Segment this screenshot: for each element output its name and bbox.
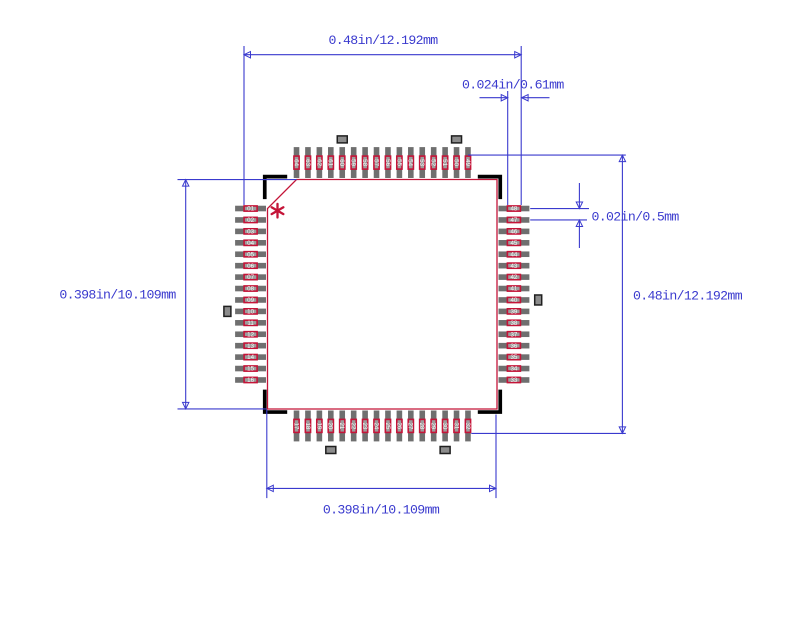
- pad 22 (bottom): [350, 411, 357, 442]
- svg-text:0.48in/12.192mm: 0.48in/12.192mm: [329, 33, 439, 48]
- svg-text:0.398in/10.109mm: 0.398in/10.109mm: [59, 288, 176, 303]
- pad 60 (top): [338, 147, 345, 178]
- svg-text:07: 07: [247, 274, 254, 281]
- pad 17 (bottom): [292, 411, 299, 442]
- svg-text:39: 39: [510, 308, 517, 315]
- marker square pin 10 (left): [224, 306, 231, 316]
- pad 39 (right): [499, 308, 530, 315]
- pad 29 (bottom): [430, 411, 437, 442]
- pad 20 (bottom): [327, 411, 334, 442]
- svg-text:08: 08: [247, 286, 254, 293]
- pad 8 (left): [235, 286, 266, 293]
- svg-text:25: 25: [384, 422, 391, 429]
- svg-text:53: 53: [418, 159, 425, 166]
- svg-text:24: 24: [372, 422, 379, 429]
- svg-text:21: 21: [338, 422, 345, 429]
- pad 6 (left): [235, 263, 266, 270]
- svg-text:13: 13: [247, 343, 254, 350]
- corner bracket bottom-left: [263, 390, 287, 414]
- svg-text:35: 35: [510, 354, 517, 361]
- pad 42 (right): [499, 274, 530, 281]
- pad 46 (right): [499, 228, 530, 235]
- pad 28 (bottom): [418, 411, 425, 442]
- marker square pin 50 (top): [452, 136, 462, 143]
- pad 4 (left): [235, 240, 266, 247]
- pad 57 (top): [372, 147, 379, 178]
- svg-text:28: 28: [418, 422, 425, 429]
- dimension: pad length 0.024in/0.61mm: [462, 77, 564, 205]
- svg-text:26: 26: [395, 422, 402, 429]
- pad 44 (right): [499, 251, 530, 258]
- svg-text:05: 05: [247, 251, 254, 258]
- svg-text:54: 54: [407, 159, 414, 166]
- svg-text:0.02in/0.5mm: 0.02in/0.5mm: [592, 210, 680, 225]
- pad 18 (bottom): [304, 411, 311, 442]
- pad 13 (left): [235, 343, 266, 350]
- svg-text:16: 16: [247, 377, 254, 384]
- svg-text:27: 27: [407, 422, 414, 429]
- pad 47 (right): [499, 217, 530, 224]
- pad 43 (right): [499, 263, 530, 270]
- svg-text:63: 63: [304, 159, 311, 166]
- svg-text:32: 32: [464, 422, 471, 429]
- svg-text:18: 18: [304, 422, 311, 429]
- pad 1 (left): [235, 206, 266, 213]
- marker square pin 20 (bottom): [326, 447, 336, 454]
- pad 55 (top): [395, 147, 402, 178]
- svg-text:49: 49: [464, 159, 471, 166]
- pad 31 (bottom): [452, 411, 459, 442]
- pad 41 (right): [499, 286, 530, 293]
- pad 7 (left): [235, 274, 266, 281]
- svg-text:0.398in/10.109mm: 0.398in/10.109mm: [323, 502, 440, 517]
- pad 45 (right): [499, 240, 530, 247]
- pad 25 (bottom): [384, 411, 391, 442]
- pad 30 (bottom): [441, 411, 448, 442]
- svg-text:59: 59: [350, 159, 357, 166]
- pad 12 (left): [235, 331, 266, 338]
- pad 40 (right): [499, 297, 530, 304]
- svg-text:15: 15: [247, 366, 254, 373]
- svg-text:57: 57: [372, 159, 379, 166]
- svg-text:33: 33: [510, 377, 517, 384]
- svg-text:23: 23: [361, 422, 368, 429]
- svg-text:47: 47: [510, 217, 517, 224]
- svg-text:52: 52: [430, 159, 437, 166]
- dimension: bottom body width 0.398in/10.109mm: [267, 410, 496, 518]
- pad 54 (top): [407, 147, 414, 178]
- pad 38 (right): [499, 320, 530, 327]
- corner bracket bottom-right: [478, 390, 502, 414]
- svg-text:46: 46: [510, 228, 517, 235]
- svg-text:62: 62: [315, 159, 322, 166]
- svg-text:20: 20: [327, 422, 334, 429]
- svg-text:51: 51: [441, 159, 448, 166]
- pad 32 (bottom): [464, 411, 471, 442]
- svg-text:40: 40: [510, 297, 517, 304]
- dimension: right overall height 0.48in/12.192mm: [468, 155, 743, 433]
- pad 35 (right): [499, 354, 530, 361]
- svg-text:64: 64: [292, 159, 299, 166]
- pad 58 (top): [361, 147, 368, 178]
- corner bracket top-right: [478, 175, 502, 199]
- svg-text:56: 56: [384, 159, 391, 166]
- svg-text:12: 12: [247, 331, 254, 338]
- pad 49 (top): [464, 147, 471, 178]
- pad 61 (top): [327, 147, 334, 178]
- svg-text:36: 36: [510, 343, 517, 350]
- svg-text:58: 58: [361, 159, 368, 166]
- pad 36 (right): [499, 343, 530, 350]
- pad 34 (right): [499, 366, 530, 373]
- pad 33 (right): [499, 377, 530, 384]
- svg-text:50: 50: [452, 159, 459, 166]
- pad 50 (top): [452, 147, 459, 178]
- pad 59 (top): [350, 147, 357, 178]
- marker square pin 60 (top): [337, 136, 347, 143]
- svg-text:38: 38: [510, 320, 517, 327]
- pad 52 (top): [430, 147, 437, 178]
- svg-text:43: 43: [510, 263, 517, 270]
- svg-text:11: 11: [247, 320, 254, 327]
- pad 24 (bottom): [372, 411, 379, 442]
- svg-text:34: 34: [510, 366, 517, 373]
- svg-text:0.48in/12.192mm: 0.48in/12.192mm: [633, 289, 743, 304]
- svg-text:41: 41: [510, 286, 517, 293]
- svg-text:55: 55: [395, 159, 402, 166]
- svg-text:03: 03: [247, 228, 254, 235]
- svg-text:06: 06: [247, 263, 254, 270]
- svg-text:10: 10: [247, 308, 254, 315]
- svg-text:01: 01: [247, 206, 254, 213]
- svg-text:45: 45: [510, 240, 517, 247]
- svg-text:19: 19: [315, 422, 322, 429]
- svg-text:31: 31: [452, 422, 459, 429]
- pad 21 (bottom): [338, 411, 345, 442]
- pad 56 (top): [384, 147, 391, 178]
- pad 2 (left): [235, 217, 266, 224]
- pad 15 (left): [235, 366, 266, 373]
- svg-text:30: 30: [441, 422, 448, 429]
- pad 48 (right): [499, 206, 530, 213]
- dimension: pad pitch 0.02in/0.5mm: [530, 183, 679, 248]
- svg-text:44: 44: [510, 251, 517, 258]
- pad 11 (left): [235, 320, 266, 327]
- svg-text:04: 04: [247, 240, 254, 247]
- pad 19 (bottom): [315, 411, 322, 442]
- pad 16 (left): [235, 377, 266, 384]
- svg-text:14: 14: [247, 354, 254, 361]
- svg-text:29: 29: [430, 422, 437, 429]
- pad 14 (left): [235, 354, 266, 361]
- svg-text:42: 42: [510, 274, 517, 281]
- svg-text:60: 60: [338, 159, 345, 166]
- svg-text:37: 37: [510, 331, 517, 338]
- corner bracket top-left: [263, 175, 287, 199]
- pad 27 (bottom): [407, 411, 414, 442]
- svg-text:02: 02: [247, 217, 254, 224]
- IC body outline U1 (chamfered pin-1 corner): [268, 180, 498, 410]
- pad 53 (top): [418, 147, 425, 178]
- pad 51 (top): [441, 147, 448, 178]
- pad 37 (right): [499, 331, 530, 338]
- marker square pin 40 (right): [535, 295, 542, 305]
- pad 63 (top): [304, 147, 311, 178]
- pad 62 (top): [315, 147, 322, 178]
- svg-text:09: 09: [247, 297, 254, 304]
- pad 5 (left): [235, 251, 266, 258]
- svg-text:0.024in/0.61mm: 0.024in/0.61mm: [462, 77, 564, 92]
- svg-text:17: 17: [292, 422, 299, 429]
- pad 10 (left): [235, 308, 266, 315]
- svg-text:22: 22: [350, 422, 357, 429]
- svg-text:48: 48: [510, 206, 517, 213]
- pin 1 marker asterisk: [272, 204, 284, 218]
- dimension: top overall width 0.48in/12.192mm: [244, 33, 521, 205]
- pad 3 (left): [235, 228, 266, 235]
- svg-text:61: 61: [327, 159, 334, 166]
- pad 26 (bottom): [395, 411, 402, 442]
- pad 23 (bottom): [361, 411, 368, 442]
- marker square pin 30 (bottom): [440, 447, 450, 454]
- dimension: left body height 0.398in/10.109mm: [59, 180, 296, 409]
- pad 64 (top): [292, 147, 299, 178]
- pad 9 (left): [235, 297, 266, 304]
